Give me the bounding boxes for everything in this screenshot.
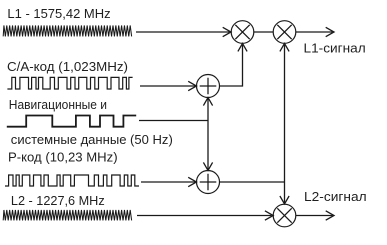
P code square wave xyxy=(5,175,139,186)
multiplier M1 xyxy=(231,21,254,44)
wire M2 to L1 output arrow xyxy=(296,31,333,33)
svg-text:С/А-код (1,023MHz): С/А-код (1,023MHz) xyxy=(7,59,128,74)
svg-text:системные данные (50 Hz): системные данные (50 Hz) xyxy=(11,132,173,147)
adder A1 xyxy=(197,75,220,98)
svg-text:L2-сигнал: L2-сигнал xyxy=(304,189,367,204)
multiplier M3 xyxy=(273,204,296,227)
wire L1 carrier to multiplier M1 xyxy=(136,31,230,33)
wire junction down to adder A2 xyxy=(207,121,209,170)
svg-text:Р-код (10,23 MHz): Р-код (10,23 MHz) xyxy=(8,149,118,164)
wire M1 to M2 xyxy=(254,31,273,33)
vertical bus wire down to multiplier M3 xyxy=(284,182,286,203)
wire L2 carrier to multiplier M3 xyxy=(137,215,272,217)
vertical bus wire up to multiplier M2 xyxy=(284,45,286,182)
wire adder A2 output to vertical bus xyxy=(220,181,285,183)
svg-text:L2 - 1227,6 MHz: L2 - 1227,6 MHz xyxy=(11,193,105,208)
C/A code square wave xyxy=(7,77,132,89)
L1 carrier sine wave xyxy=(3,25,131,36)
wire C/A code to adder A1 xyxy=(140,85,195,87)
wire M3 to L2 output arrow xyxy=(296,215,333,217)
L2 carrier sine wave xyxy=(3,210,131,220)
navigation data square wave xyxy=(7,116,136,127)
wire adder A1 output up to multiplier M1 xyxy=(220,45,243,86)
svg-text:L1-сигнал: L1-сигнал xyxy=(304,40,366,55)
svg-text:Навигационные и: Навигационные и xyxy=(9,97,107,112)
wire P code to adder A2 xyxy=(141,181,195,183)
wire junction up to adder A1 xyxy=(207,99,209,121)
svg-text:L1 - 1575,42 MHz: L1 - 1575,42 MHz xyxy=(7,6,110,21)
wire nav data to junction xyxy=(139,120,208,122)
multiplier M2 xyxy=(273,21,296,44)
adder A2 xyxy=(197,171,220,194)
